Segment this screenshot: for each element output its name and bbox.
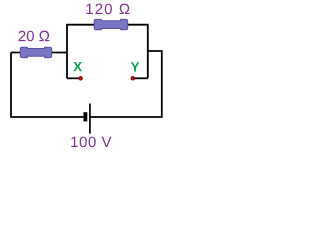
value label 20 ohm xyxy=(19,31,50,42)
resistor R1 (20 ohm) xyxy=(20,47,51,57)
node Y junction dot xyxy=(131,76,135,80)
wire: bottom right from battery plus, up right side, jog to loop xyxy=(90,51,162,117)
value label 120 ohm xyxy=(86,4,129,15)
node label X xyxy=(73,62,82,71)
wire: stub to node X xyxy=(67,77,81,79)
resistor R2 (120 ohm) xyxy=(94,19,128,29)
wire: 120-ohm loop (left vertical, top, right vertical) xyxy=(67,25,148,79)
wire: left outer loop (down from 20-ohm branch, along bottom to battery minus) xyxy=(11,53,83,118)
node label Y xyxy=(131,62,140,71)
value label 100 V xyxy=(71,137,111,148)
battery B1: negative plate (short thick) xyxy=(83,112,87,121)
wire: 20-ohm branch horizontal xyxy=(11,52,67,54)
node X junction dot xyxy=(79,76,83,80)
wire: stub from node Y xyxy=(133,77,148,79)
battery B1: positive plate (long thin) xyxy=(89,104,91,134)
